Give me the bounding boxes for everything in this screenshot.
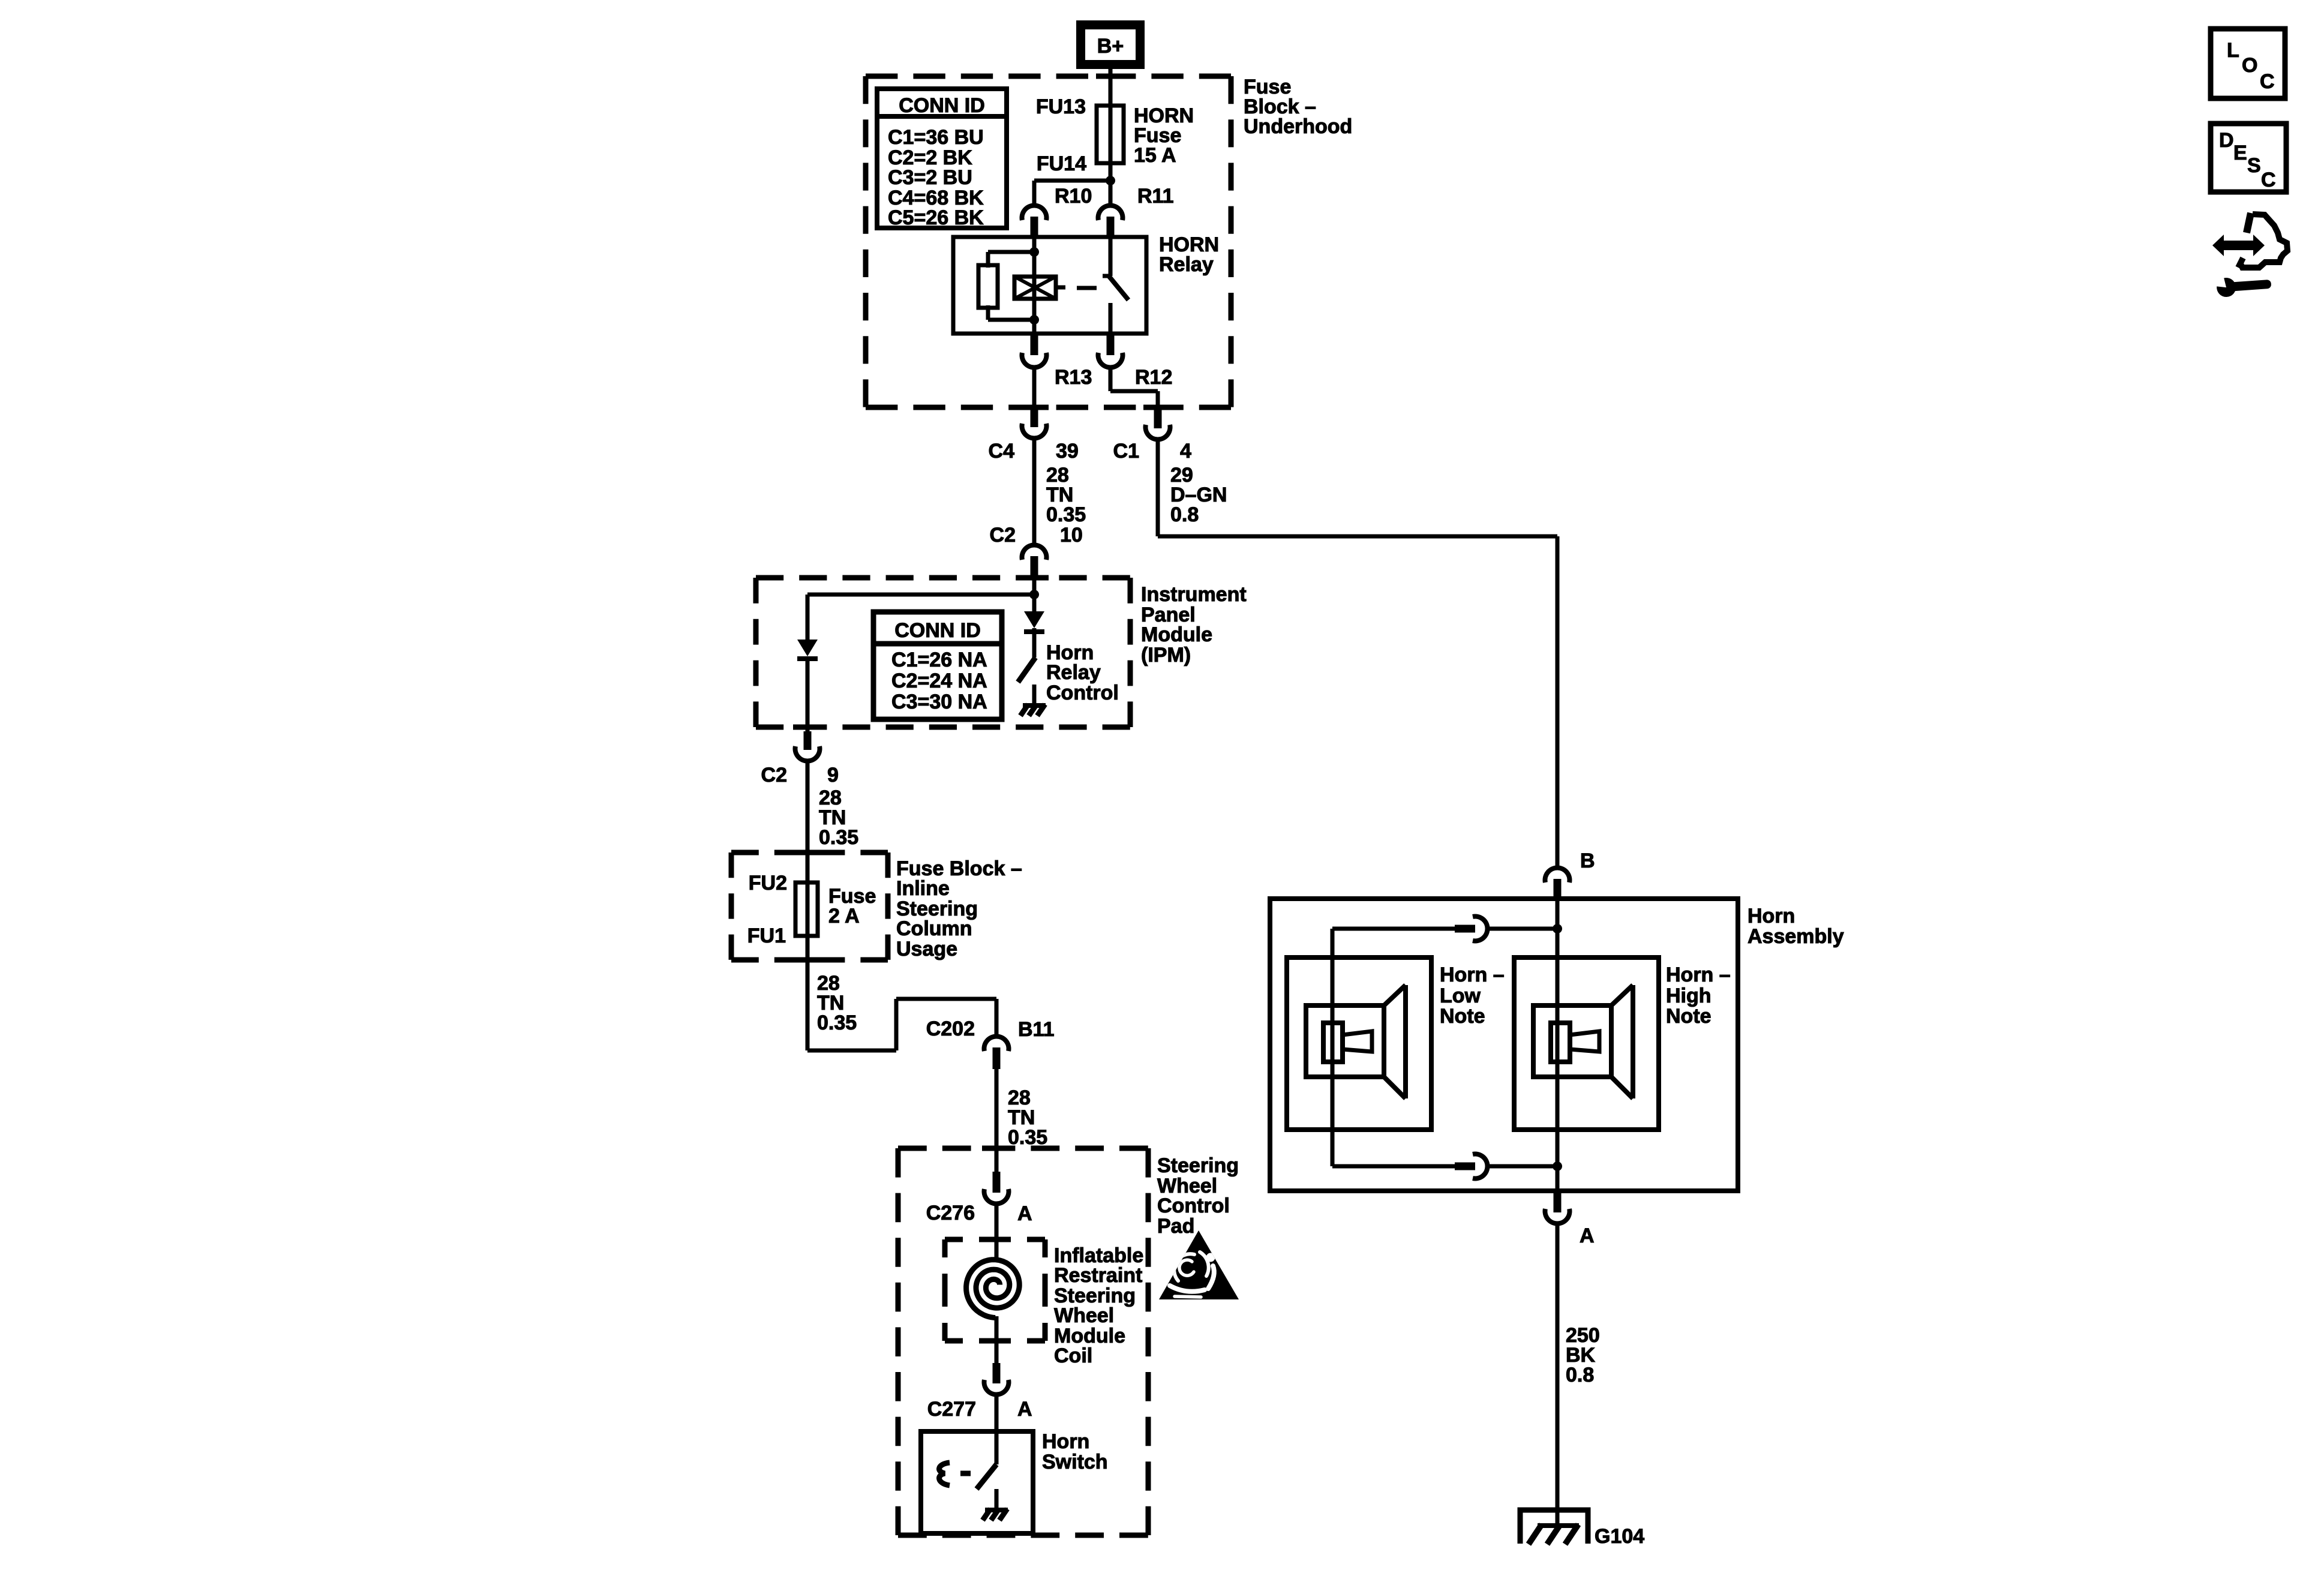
- label 10: [1060, 524, 1083, 547]
- svg-text:B11: B11: [1018, 1018, 1055, 1041]
- connector pin R11: [1098, 205, 1122, 238]
- horn - low note: [1287, 957, 1431, 1130]
- svg-text:FU2: FU2: [749, 872, 787, 894]
- dash crossing inline top: [793, 850, 822, 855]
- label Steering Wheel Control Pad: [1157, 1154, 1239, 1238]
- dash crossing inline bottom: [793, 957, 822, 963]
- label A: [1580, 1224, 1595, 1247]
- wiring repair icon (car with arrow and wrench): [2212, 213, 2287, 298]
- wire FU14 branch horizontal: [1034, 179, 1110, 183]
- wire R12 jog to C1: [1110, 366, 1158, 414]
- fuse FU13 HORN Fuse 15A symbol: [1097, 106, 1124, 181]
- svg-text:R12: R12: [1135, 366, 1172, 389]
- connector C2 pin 9: [795, 731, 820, 761]
- dash crossing at C1 wire: [1143, 405, 1172, 410]
- connector C277 pin A: [984, 1363, 1009, 1395]
- label C1: [1113, 440, 1139, 463]
- label wire 28 TN 0.35 (set2): [819, 786, 858, 849]
- relay mech dashes: [1077, 286, 1097, 290]
- ground G104 symbol: [1520, 1510, 1588, 1544]
- svg-text:10: 10: [1060, 524, 1083, 547]
- label wire 28 TN 0.35 (set4): [1008, 1086, 1047, 1149]
- label Horn - High Note: [1666, 963, 1731, 1028]
- svg-text:S: S: [2247, 154, 2261, 177]
- dash crossing at IPM exit: [793, 725, 822, 730]
- svg-text:C276: C276: [926, 1202, 975, 1224]
- fuse block inline dashed box: [731, 852, 888, 960]
- svg-text:(IPM): (IPM): [1141, 644, 1191, 667]
- label A (C276): [1017, 1202, 1032, 1225]
- label Fuse Block - Underhood: [1244, 76, 1352, 138]
- dash crossing pad top: [982, 1146, 1011, 1151]
- label R11: [1137, 185, 1174, 208]
- wire 28 TN 0.35 (to inline fuse): [806, 761, 810, 885]
- svg-text:C3=2 BU: C3=2 BU: [888, 166, 972, 189]
- svg-text:Relay: Relay: [1159, 253, 1214, 276]
- svg-text:G104: G104: [1595, 1525, 1644, 1548]
- wire C2 stub to junction: [1032, 571, 1037, 595]
- svg-text:C: C: [2261, 169, 2276, 191]
- svg-text:L: L: [2227, 39, 2239, 62]
- junction dot bottom: [1553, 1161, 1562, 1171]
- IPM internal wire to diode branch: [807, 595, 1034, 640]
- svg-text:Switch: Switch: [1042, 1451, 1108, 1473]
- svg-text:Coil: Coil: [1054, 1344, 1092, 1367]
- wire R13 to C4: [1032, 366, 1037, 407]
- label C202: [926, 1017, 975, 1040]
- label Horn Assembly: [1747, 905, 1844, 948]
- svg-text:Relay: Relay: [1046, 661, 1101, 684]
- connector pin R10: [1022, 205, 1047, 238]
- IPM switch fixed contact: [1032, 685, 1037, 703]
- svg-text:Horn –: Horn –: [1666, 963, 1731, 986]
- label R12: [1135, 366, 1172, 389]
- svg-text:39: 39: [1056, 440, 1079, 463]
- svg-text:Horn: Horn: [1747, 905, 1795, 927]
- fuse 2A symbol: [795, 864, 818, 948]
- dash crossing at C4 wire: [1020, 405, 1049, 410]
- horn - high note: [1514, 957, 1659, 1130]
- svg-text:9: 9: [827, 764, 839, 786]
- svg-text:0.35: 0.35: [1046, 503, 1086, 526]
- label C2: [990, 524, 1016, 547]
- svg-text:Steering: Steering: [1157, 1154, 1239, 1177]
- label B: [1580, 849, 1595, 872]
- svg-text:E: E: [2233, 142, 2247, 164]
- svg-text:FU1: FU1: [747, 924, 786, 947]
- label C2 (lower): [761, 764, 787, 786]
- svg-text:C1=36 BU: C1=36 BU: [888, 126, 984, 149]
- svg-text:A: A: [1017, 1202, 1032, 1225]
- label HORN Relay: [1159, 233, 1219, 276]
- label 9: [827, 764, 839, 786]
- svg-text:CONN ID: CONN ID: [899, 94, 985, 117]
- label Inflatable Restraint Steering Wheel Module Coil: [1054, 1244, 1143, 1367]
- label G104: [1595, 1525, 1644, 1548]
- connector C276 pin A: [984, 1172, 1009, 1204]
- wire diode to switch: [1032, 632, 1037, 658]
- svg-text:C4: C4: [989, 440, 1015, 463]
- label wire 29 D-GN 0.8: [1170, 464, 1227, 526]
- wire C276 to coil: [995, 1203, 999, 1261]
- junction dot top: [1553, 924, 1562, 933]
- wire to low note horn (bottom): [1332, 1164, 1456, 1169]
- low note connector (top): [1455, 916, 1488, 941]
- IPM diode (horn relay control): [1024, 611, 1044, 632]
- label C277: [927, 1398, 976, 1421]
- wire connector to junction (bottom): [1486, 1164, 1557, 1169]
- svg-text:C1=26 NA: C1=26 NA: [891, 649, 987, 671]
- connector C4 pin 39: [1022, 406, 1047, 439]
- dash crossing at B+ wire: [1096, 74, 1125, 79]
- connector pin R12: [1098, 334, 1122, 368]
- label FU2: [749, 872, 787, 894]
- connector B: [1545, 867, 1569, 899]
- svg-text:Control: Control: [1157, 1194, 1230, 1217]
- svg-text:C202: C202: [926, 1017, 975, 1040]
- svg-text:Module: Module: [1141, 623, 1212, 646]
- svg-text:0.35: 0.35: [817, 1011, 857, 1034]
- svg-text:Wheel: Wheel: [1054, 1304, 1114, 1327]
- clockspring coil dashed box: [945, 1239, 1045, 1341]
- horn switch blade: [977, 1464, 996, 1489]
- svg-text:Control: Control: [1046, 682, 1119, 704]
- svg-text:B+: B+: [1097, 35, 1124, 58]
- svg-text:C277: C277: [927, 1398, 976, 1421]
- label FU14: [1037, 152, 1086, 175]
- svg-text:A: A: [1017, 1398, 1032, 1421]
- relay resistor R: [978, 252, 1034, 320]
- svg-text:B: B: [1580, 849, 1595, 872]
- low note connector (bottom): [1455, 1154, 1488, 1179]
- relay junction bottom: [1029, 315, 1039, 325]
- svg-text:0.35: 0.35: [819, 826, 858, 849]
- relay switch fixed lead: [1103, 237, 1111, 276]
- horn assembly main wire: [1556, 899, 1560, 1191]
- IPM internal ground: [1020, 704, 1046, 716]
- horn switch ground: [983, 1509, 1008, 1520]
- svg-text:Note: Note: [1440, 1005, 1485, 1028]
- label wire 28 TN 0.35 (upper): [1046, 464, 1086, 526]
- fuse block - underhood dashed box: [866, 76, 1231, 407]
- svg-text:R13: R13: [1055, 366, 1092, 389]
- svg-text:0.35: 0.35: [1008, 1126, 1047, 1149]
- wire 28 TN 0.35 (C4 to C2): [1032, 438, 1037, 544]
- relay switch blade: [1109, 277, 1128, 300]
- label A (C277): [1017, 1398, 1032, 1421]
- wire connector to junction (top): [1486, 927, 1557, 931]
- relay switch lower lead: [1109, 303, 1113, 334]
- svg-text:Inline: Inline: [896, 877, 950, 900]
- svg-text:15 A: 15 A: [1134, 144, 1176, 167]
- SIR caution triangle: [1159, 1230, 1239, 1299]
- label wire 28 TN 0.35 (set3): [817, 972, 857, 1034]
- label FU13: [1036, 95, 1086, 118]
- label Fuse 2 A: [828, 885, 876, 927]
- connector C1 pin 4: [1146, 409, 1170, 440]
- svg-text:Low: Low: [1440, 984, 1481, 1007]
- IPM right branch wire: [1032, 595, 1037, 611]
- power feed B+ terminal: [1076, 20, 1145, 69]
- label B11: [1018, 1018, 1055, 1041]
- low note branch wire: [1331, 929, 1335, 1166]
- svg-text:Horn: Horn: [1042, 1430, 1089, 1453]
- svg-text:C2=24 NA: C2=24 NA: [891, 670, 987, 692]
- svg-text:R11: R11: [1137, 185, 1174, 208]
- svg-text:Horn –: Horn –: [1440, 963, 1505, 986]
- DESC reference box: [2211, 124, 2286, 192]
- label Horn - Low Note: [1440, 963, 1505, 1028]
- svg-text:O: O: [2242, 54, 2257, 77]
- svg-text:Assembly: Assembly: [1747, 925, 1844, 948]
- connector C2 pin 10: [1022, 545, 1047, 577]
- svg-text:4: 4: [1180, 440, 1191, 463]
- wire to low note horn (top): [1332, 927, 1456, 931]
- CONN ID table (IPM): [873, 612, 1002, 719]
- svg-text:Note: Note: [1666, 1005, 1712, 1028]
- svg-text:C: C: [2260, 70, 2275, 93]
- wire C277 to horn switch: [995, 1394, 999, 1464]
- wire B+ to fuse FU13: [1109, 69, 1113, 108]
- connector C202 pin B11: [984, 1036, 1009, 1069]
- svg-text:C3=30 NA: C3=30 NA: [891, 691, 987, 713]
- IPM switch blade: [1018, 658, 1035, 682]
- instrument panel module dashed box: [756, 578, 1130, 727]
- label Instrument Panel Module (IPM): [1141, 583, 1247, 667]
- label FU1: [747, 924, 786, 947]
- svg-text:C1: C1: [1113, 440, 1139, 463]
- relay junction top: [1029, 247, 1039, 257]
- svg-text:Usage: Usage: [896, 938, 957, 960]
- svg-text:2 A: 2 A: [828, 905, 860, 927]
- svg-text:Underhood: Underhood: [1244, 115, 1352, 138]
- horn assembly box: [1270, 899, 1738, 1191]
- svg-text:FU14: FU14: [1037, 152, 1086, 175]
- svg-text:CONN ID: CONN ID: [894, 619, 981, 642]
- svg-text:C5=26 BK: C5=26 BK: [888, 206, 984, 229]
- wire 250 BK 0.8 to ground: [1556, 1223, 1560, 1527]
- LOC reference box: [2211, 29, 2285, 98]
- wire down to R10: [1032, 181, 1037, 205]
- relay coil symbol: [1014, 277, 1065, 299]
- svg-text:Restraint: Restraint: [1054, 1264, 1142, 1287]
- label C276: [926, 1202, 975, 1224]
- label Horn Relay Control: [1046, 641, 1119, 704]
- svg-text:0.8: 0.8: [1170, 503, 1199, 526]
- wire 29 D-GN 0.8 to horn assembly: [1158, 439, 1557, 868]
- svg-text:R10: R10: [1055, 185, 1092, 208]
- svg-text:0.8: 0.8: [1566, 1364, 1594, 1386]
- dash crossing at C2 entry: [1020, 575, 1049, 581]
- junction dot below fuse: [1106, 176, 1115, 185]
- svg-text:C2: C2: [990, 524, 1016, 547]
- clockspring spiral coil symbol: [966, 1239, 1020, 1365]
- relay coil wire: [1032, 237, 1037, 334]
- horn switch fixed contact: [995, 1489, 999, 1508]
- svg-text:D: D: [2219, 129, 2234, 152]
- label C4: [989, 440, 1015, 463]
- label 39: [1056, 440, 1079, 463]
- CONN ID table (underhood): [877, 89, 1007, 229]
- svg-text:Column: Column: [896, 917, 972, 940]
- label Horn Switch: [1042, 1430, 1108, 1473]
- horn switch actuator: [939, 1463, 971, 1485]
- svg-text:High: High: [1666, 984, 1712, 1007]
- label R13: [1055, 366, 1092, 389]
- IPM junction dot: [1029, 590, 1039, 599]
- wire diode to C2 out: [806, 659, 810, 733]
- horn switch box: [921, 1431, 1033, 1533]
- label wire 250 BK 0.8: [1566, 1324, 1600, 1386]
- label 4: [1180, 440, 1191, 463]
- label Fuse Block - Inline Steering Column Usage: [896, 857, 1022, 960]
- IPM diode (left branch): [797, 640, 818, 659]
- connector A: [1545, 1191, 1569, 1224]
- label R10: [1055, 185, 1092, 208]
- svg-text:Instrument: Instrument: [1141, 583, 1247, 606]
- connector pin R13: [1022, 334, 1047, 368]
- svg-text:C2: C2: [761, 764, 787, 786]
- wire B11 to steering pad: [995, 1062, 999, 1173]
- svg-text:Pad: Pad: [1157, 1215, 1194, 1238]
- svg-text:A: A: [1580, 1224, 1595, 1247]
- wire down to R11: [1109, 181, 1113, 205]
- label HORN Fuse 15 A: [1134, 104, 1194, 167]
- svg-text:FU13: FU13: [1036, 95, 1086, 118]
- steering wheel control pad dashed box: [898, 1148, 1148, 1535]
- HORN relay box: [953, 237, 1146, 334]
- wire from inline fuse with jog: [807, 948, 996, 1050]
